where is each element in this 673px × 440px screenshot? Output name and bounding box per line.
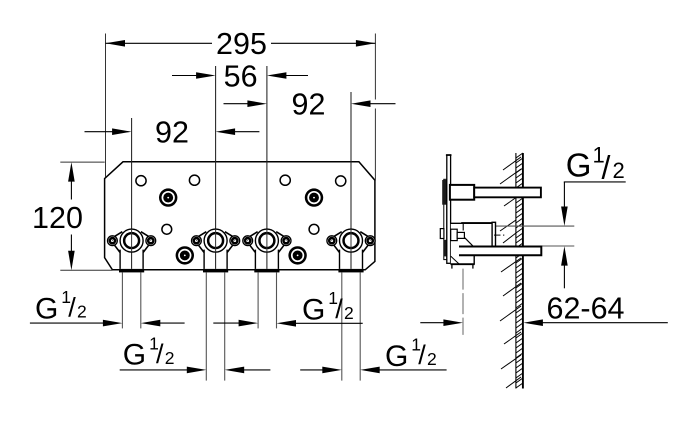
- extension line plate right: [374, 34, 376, 181]
- mid hole left: [162, 224, 172, 234]
- side mounting plate edge: [447, 155, 451, 263]
- svg-text:2: 2: [613, 158, 625, 183]
- dimension 92 right: [224, 88, 396, 122]
- pipe stub 4: [342, 272, 360, 380]
- mounting plate outline: [105, 162, 375, 270]
- fitting F2: [192, 229, 240, 272]
- G 1/2 leader 3: [277, 320, 363, 327]
- G 1/2 right leader: [561, 182, 626, 288]
- upper collar: [450, 185, 474, 200]
- centerline fitting 2: [215, 66, 217, 269]
- svg-text:56: 56: [224, 59, 258, 93]
- socket cylinder: [462, 223, 492, 247]
- top mounting hole 4: [336, 176, 346, 186]
- upper pipe: [474, 188, 541, 198]
- top mounting hole 1: [136, 176, 146, 186]
- G 1/2 label right: [566, 142, 625, 185]
- lower screw left: [176, 246, 194, 264]
- side dark strip lower: [444, 240, 448, 257]
- thread line upper: [496, 225, 575, 227]
- clamp bolt pieces: [440, 229, 464, 241]
- pipe stub 2: [206, 272, 224, 380]
- dimension 62-64: [420, 291, 668, 326]
- elbow body: [451, 223, 493, 264]
- svg-text:120: 120: [32, 201, 83, 235]
- side dark strip upper: [442, 180, 447, 205]
- lower pipe: [459, 247, 541, 256]
- wall plaster hatch strokes: [500, 157, 521, 388]
- G 1/2 stub4 left arrow: [300, 367, 342, 374]
- G 1/2 callout label 1: [35, 287, 87, 325]
- elbow center extension line: [462, 269, 464, 335]
- socket end flange: [492, 222, 495, 248]
- top mounting hole 3: [280, 175, 290, 185]
- elbow feet ticks: [452, 265, 473, 269]
- dimension 92 left: [85, 116, 260, 150]
- G 1/2 leader 2: [120, 367, 207, 374]
- centerline fitting 3: [266, 66, 268, 269]
- svg-text:62-64: 62-64: [546, 291, 624, 325]
- upper screw right: [305, 188, 323, 206]
- wall hatched band: [500, 153, 523, 389]
- pipe stub 3: [258, 272, 276, 328]
- centerline fitting 4: [350, 92, 352, 269]
- svg-text:92: 92: [155, 116, 189, 150]
- pipe stub 1: [122, 272, 140, 328]
- centerline fitting 1: [131, 118, 133, 269]
- svg-text:92: 92: [292, 88, 326, 122]
- G 1/2 callout label 2: [123, 333, 175, 371]
- G 1/2 leader 4: [360, 367, 446, 374]
- socket center mark: [494, 234, 504, 236]
- G 1/2 stub3 left arrow: [213, 320, 258, 327]
- fitting F1: [108, 229, 156, 272]
- fitting F4: [327, 229, 375, 272]
- dimension 295: [106, 27, 376, 61]
- thread line lower: [496, 245, 575, 247]
- fitting F3: [243, 229, 291, 272]
- G 1/2 stub1 right arrow: [141, 320, 185, 327]
- svg-text:295: 295: [216, 27, 267, 61]
- dimension 120: [32, 162, 112, 270]
- elbow bottom and right edge: [451, 256, 475, 265]
- G 1/2 callout label 3: [302, 288, 354, 326]
- extension line plate left: [105, 34, 107, 178]
- side plate strip: [444, 179, 447, 259]
- G 1/2 leader 1: [30, 320, 123, 327]
- mid hole right: [309, 224, 319, 234]
- G 1/2 stub2 right arrow: [225, 367, 271, 374]
- top mounting hole 2: [189, 175, 199, 185]
- G 1/2 callout label 4: [385, 335, 437, 373]
- dimension 56: [172, 59, 308, 93]
- svg-text:/: /: [602, 149, 611, 185]
- side plate top cap: [446, 154, 452, 156]
- svg-text:G: G: [566, 147, 592, 184]
- upper screw left: [159, 188, 177, 206]
- lower screw right: [288, 246, 306, 264]
